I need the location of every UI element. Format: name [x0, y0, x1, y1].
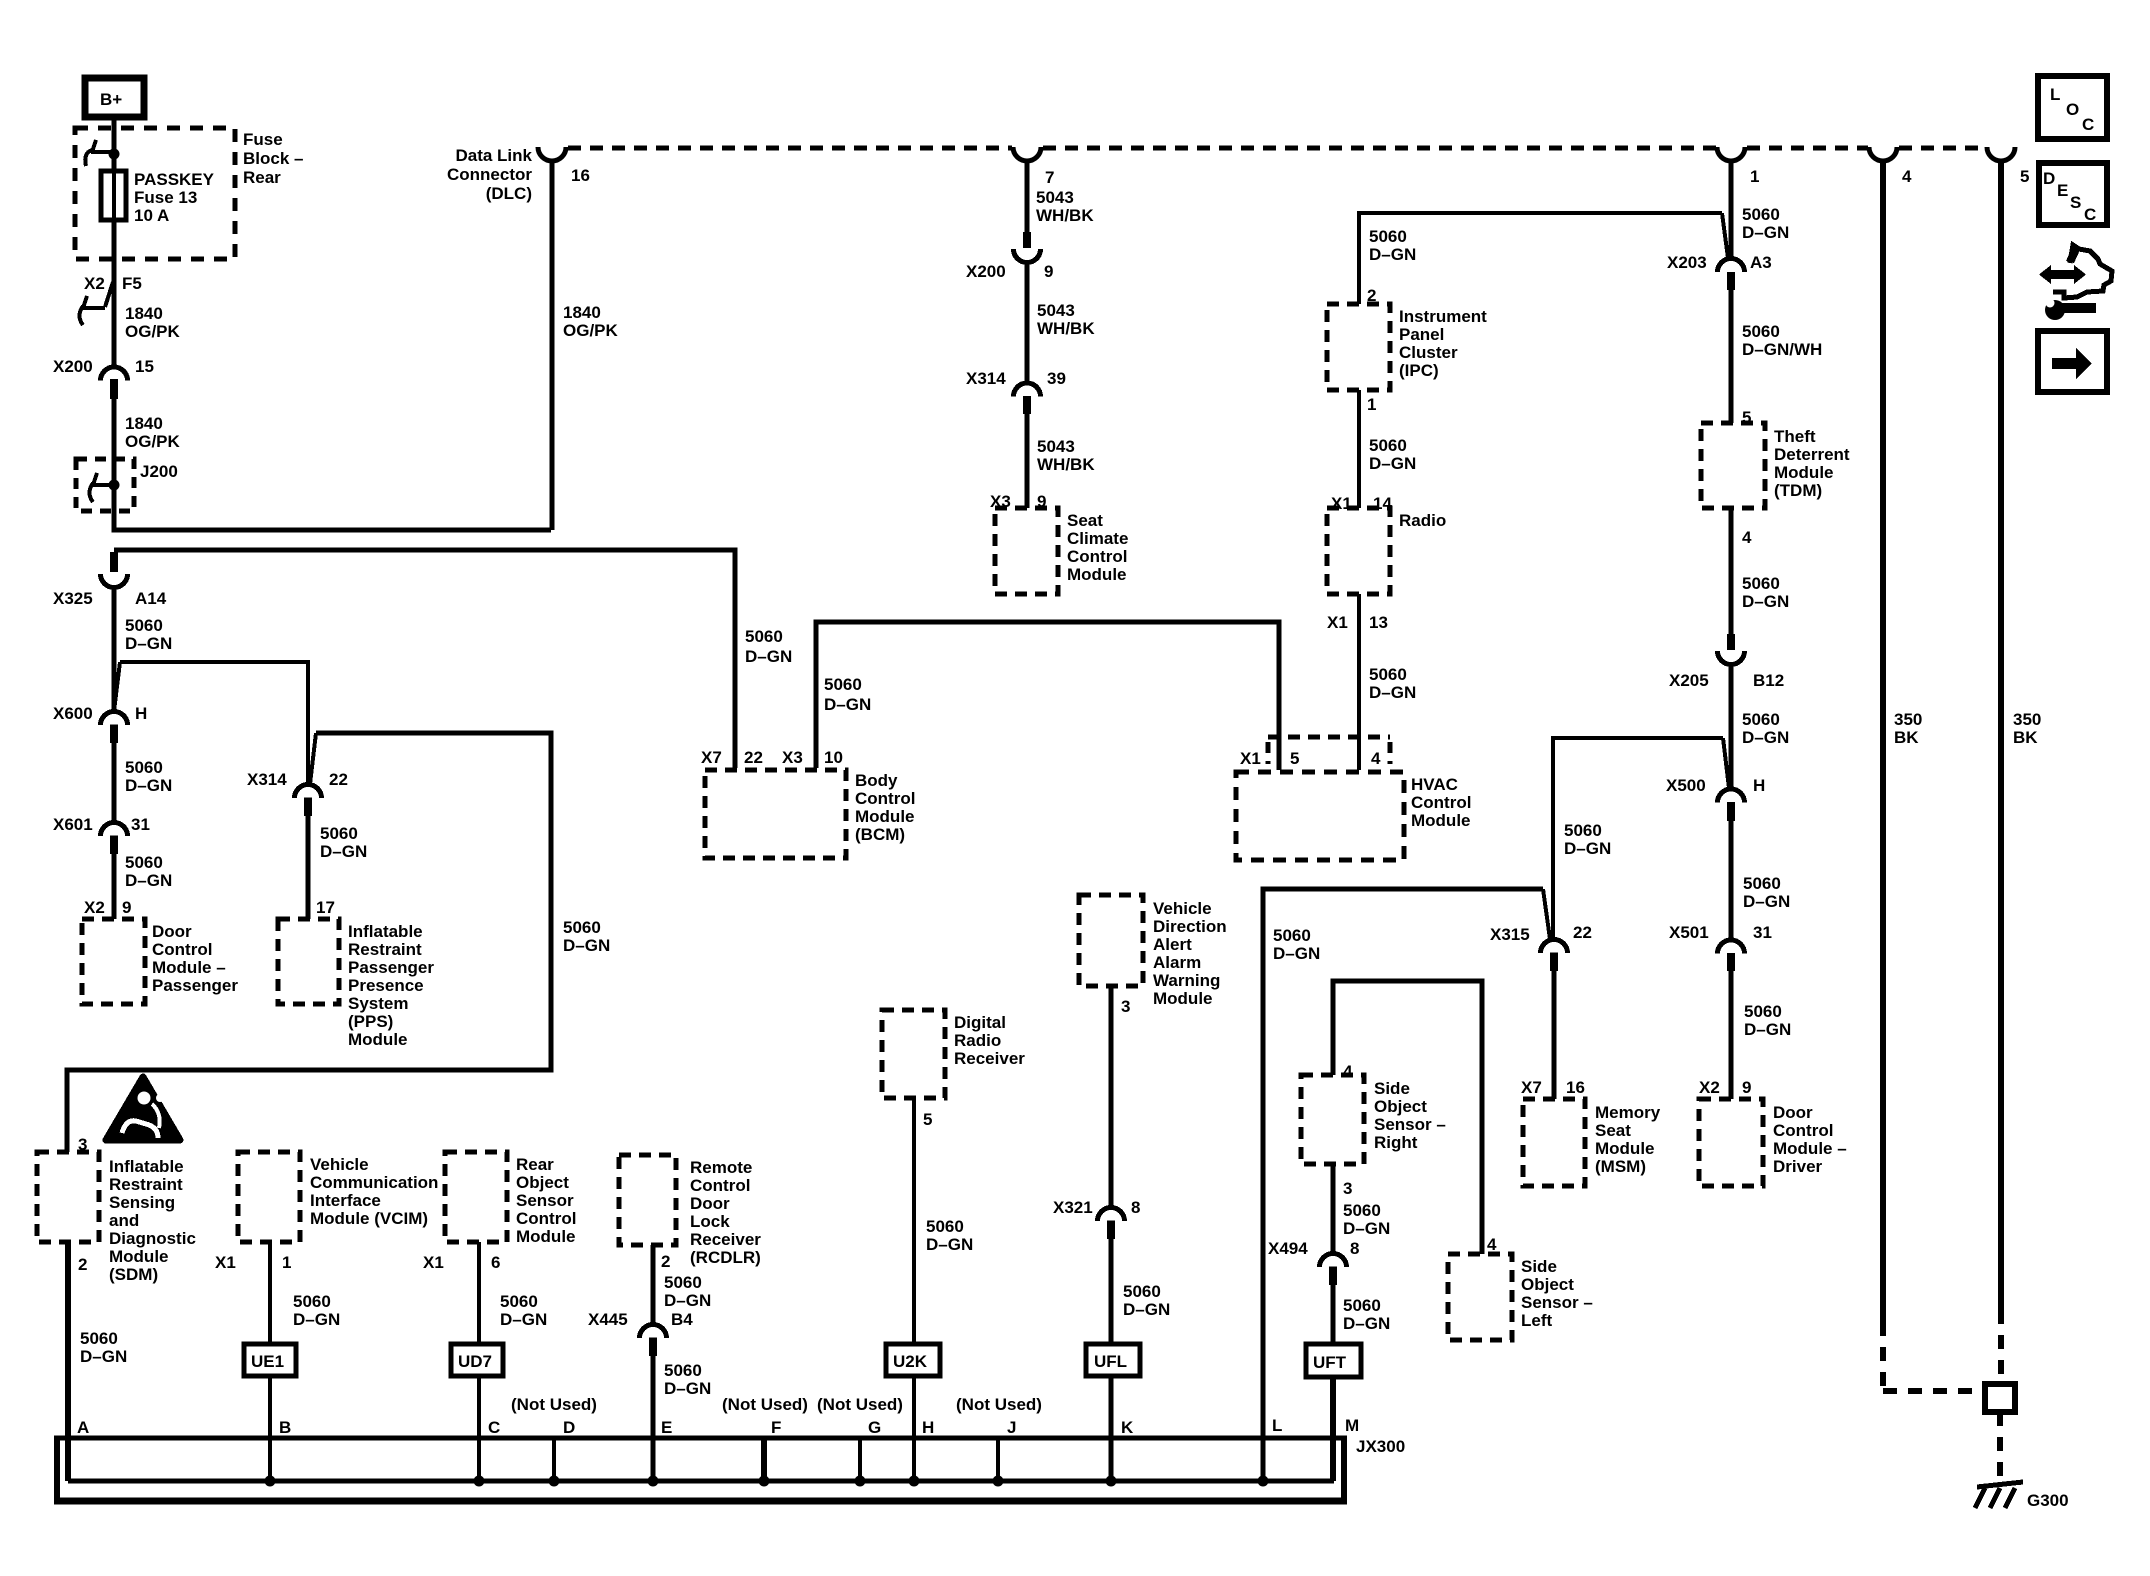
wire UE1 to splice pack B: [268, 1376, 272, 1481]
connector X314 pin 39: [966, 369, 1066, 414]
svg-text:22: 22: [744, 748, 763, 767]
svg-text:3: 3: [1343, 1179, 1352, 1198]
svg-text:5060: 5060: [1743, 874, 1781, 893]
connector X445 pin B4: [588, 1310, 693, 1356]
svg-text:Warning: Warning: [1153, 971, 1220, 990]
svg-text:D–GN: D–GN: [1369, 245, 1416, 264]
svg-text:D–GN: D–GN: [926, 1235, 973, 1254]
wire 5060 D-GN to UD7: [477, 1242, 481, 1344]
svg-text:E: E: [661, 1418, 672, 1437]
svg-text:5060: 5060: [320, 824, 358, 843]
svg-text:Module –: Module –: [1773, 1139, 1847, 1158]
wire 5060 D-GN X321 to UFL: [1109, 1239, 1114, 1344]
svg-text:16: 16: [1566, 1078, 1585, 1097]
stub D: [552, 1438, 556, 1481]
wire dashed to G300: [1997, 1412, 2003, 1482]
wire 1840 OG/PK to X200: [112, 268, 117, 368]
wire U2K to splice pack H: [912, 1376, 916, 1481]
svg-text:1: 1: [1367, 395, 1376, 414]
svg-text:D–GN: D–GN: [563, 936, 610, 955]
icon DESC box: [2039, 163, 2107, 225]
svg-text:D–GN: D–GN: [1343, 1219, 1390, 1238]
connector X601 pin 31: [53, 815, 150, 854]
wire 5060 D-GN X494 to UFT: [1331, 1285, 1336, 1344]
svg-text:Interface: Interface: [310, 1191, 381, 1210]
svg-text:Panel: Panel: [1399, 325, 1444, 344]
svg-text:X2: X2: [84, 898, 105, 917]
svg-text:5: 5: [1290, 749, 1299, 768]
connector UFT: [1306, 1344, 1361, 1377]
wire branch X500 to X315: [1553, 738, 1729, 940]
icon wrench: [2043, 298, 2096, 320]
stub J: [996, 1438, 1000, 1481]
svg-text:D–GN: D–GN: [1369, 454, 1416, 473]
svg-text:C: C: [488, 1418, 500, 1437]
wire UFT to splice pack M: [1330, 1377, 1336, 1481]
svg-text:Fuse: Fuse: [243, 130, 283, 149]
svg-text:X7: X7: [701, 748, 722, 767]
svg-text:X600: X600: [53, 704, 93, 723]
svg-text:D–GN: D–GN: [745, 647, 792, 666]
svg-text:X314: X314: [247, 770, 287, 789]
connector U2K: [886, 1344, 940, 1376]
svg-text:10: 10: [824, 748, 843, 767]
svg-text:Rear: Rear: [516, 1155, 554, 1174]
svg-text:D–GN: D–GN: [1742, 223, 1789, 242]
svg-text:F5: F5: [122, 274, 142, 293]
stub F: [761, 1438, 767, 1481]
splice pack JX300 bus: [54, 1436, 1347, 1503]
icon forward arrow box: [2038, 331, 2107, 392]
svg-text:H: H: [1753, 776, 1765, 795]
svg-text:5060: 5060: [1369, 436, 1407, 455]
svg-text:2: 2: [78, 1255, 87, 1274]
svg-text:Alarm: Alarm: [1153, 953, 1201, 972]
svg-text:Control: Control: [1067, 547, 1127, 566]
fuse PASSKEY Fuse 13 10A: [101, 171, 126, 220]
connector X200 pin 15: [53, 357, 154, 399]
svg-text:31: 31: [1753, 923, 1772, 942]
svg-text:2: 2: [661, 1252, 670, 1271]
svg-text:Module: Module: [516, 1227, 576, 1246]
svg-text:(RCDLR): (RCDLR): [690, 1248, 761, 1267]
labels (Not Used): [511, 1395, 1042, 1414]
serial data bus dashed line: [568, 146, 1987, 151]
svg-text:5043: 5043: [1037, 437, 1075, 456]
svg-text:Module –: Module –: [152, 958, 226, 977]
svg-text:Theft: Theft: [1774, 427, 1816, 446]
svg-text:Module: Module: [348, 1030, 408, 1049]
wire 5060 D-GN to BCM X7: [114, 550, 735, 768]
svg-text:Diagnostic: Diagnostic: [109, 1229, 196, 1248]
svg-text:8: 8: [1131, 1198, 1140, 1217]
svg-text:BK: BK: [1894, 728, 1919, 747]
svg-text:Side: Side: [1521, 1257, 1557, 1276]
wire 5060 D-GN sensor right to X494: [1331, 1164, 1336, 1254]
wire 5060 D-GN X315 branch to splice pack L: [1263, 889, 1543, 1481]
svg-text:D–GN: D–GN: [1123, 1300, 1170, 1319]
connector X600 pin H: [53, 704, 147, 743]
svg-text:X445: X445: [588, 1310, 628, 1329]
svg-text:D–GN: D–GN: [1564, 839, 1611, 858]
svg-text:D–GN: D–GN: [320, 842, 367, 861]
svg-text:5060: 5060: [1742, 574, 1780, 593]
svg-text:U2K: U2K: [893, 1352, 928, 1371]
svg-text:5060: 5060: [1744, 1002, 1782, 1021]
svg-text:5060: 5060: [1273, 926, 1311, 945]
ground G300: [1975, 1482, 2069, 1510]
svg-text:9: 9: [122, 898, 131, 917]
svg-text:and: and: [109, 1211, 139, 1230]
connector X200 pin 9: [966, 232, 1053, 281]
svg-text:L: L: [2050, 85, 2060, 104]
svg-text:D–GN: D–GN: [500, 1310, 547, 1329]
svg-text:D–GN: D–GN: [80, 1347, 127, 1366]
module Side Object Sensor - Left: [1448, 1254, 1512, 1340]
svg-text:B: B: [279, 1418, 291, 1437]
svg-text:(Not Used): (Not Used): [722, 1395, 808, 1414]
svg-text:5043: 5043: [1037, 301, 1075, 320]
wire UD7 to splice pack C: [477, 1376, 481, 1481]
wire 5060 D-GN side object sensors branch: [1333, 981, 1482, 1254]
wire 5060 D-GN X205 to X500: [1729, 664, 1734, 789]
connector X2 pin F5: [80, 274, 142, 325]
svg-text:Sensor –: Sensor –: [1521, 1293, 1593, 1312]
svg-text:UFL: UFL: [1094, 1352, 1127, 1371]
svg-text:Sensor –: Sensor –: [1374, 1115, 1446, 1134]
wire 5060 D-GN DRR to U2K: [912, 1098, 916, 1344]
wire 5060 D-GN pin1 to X203: [1729, 160, 1734, 259]
svg-text:4: 4: [1343, 1062, 1353, 1081]
svg-text:J200: J200: [140, 462, 178, 481]
svg-text:Vehicle: Vehicle: [1153, 899, 1212, 918]
svg-text:M: M: [1345, 1416, 1359, 1435]
svg-text:PASSKEY: PASSKEY: [134, 170, 215, 189]
svg-text:WH/BK: WH/BK: [1036, 206, 1094, 225]
svg-text:X200: X200: [53, 357, 93, 376]
wire 5060 D-GN X314 branch to SDM: [67, 733, 551, 1152]
svg-text:31: 31: [131, 815, 150, 834]
module Rear Object Sensor Control Module: [445, 1152, 507, 1242]
svg-text:X500: X500: [1666, 776, 1706, 795]
svg-text:D–GN: D–GN: [293, 1310, 340, 1329]
wire 5060 D-GN SDM to splice pack A: [65, 1242, 71, 1481]
module Inflatable Restraint Sensing and Diagnostic Module (SDM): [37, 1152, 99, 1242]
svg-text:5060: 5060: [1343, 1201, 1381, 1220]
wire 5060 D-GN VCIM to UE1: [268, 1242, 272, 1344]
svg-text:Block –: Block –: [243, 149, 303, 168]
module Door Control Module - Driver: [1699, 1099, 1763, 1186]
svg-text:5060: 5060: [1369, 665, 1407, 684]
svg-text:5060: 5060: [926, 1217, 964, 1236]
svg-text:5060: 5060: [125, 758, 163, 777]
connector UFL: [1086, 1344, 1140, 1376]
svg-text:H: H: [135, 704, 147, 723]
svg-text:5060: 5060: [745, 627, 783, 646]
svg-text:X3: X3: [782, 748, 803, 767]
wire 5060 D-GN IPC to radio: [1357, 390, 1361, 508]
svg-text:UE1: UE1: [251, 1352, 284, 1371]
svg-text:Data Link: Data Link: [455, 146, 532, 165]
module Inflatable Restraint Passenger Presence System (PPS) Module: [278, 919, 339, 1004]
svg-text:D–GN: D–GN: [1343, 1314, 1390, 1333]
svg-text:D: D: [2043, 169, 2055, 188]
svg-text:5060: 5060: [824, 675, 862, 694]
svg-text:Module: Module: [109, 1247, 169, 1266]
svg-text:E: E: [2057, 181, 2068, 200]
svg-text:Instrument: Instrument: [1399, 307, 1487, 326]
module Vehicle Communication Interface Module (VCIM): [238, 1152, 300, 1242]
svg-text:X325: X325: [53, 589, 93, 608]
svg-text:BK: BK: [2013, 728, 2038, 747]
module Body Control Module (BCM): [705, 770, 846, 858]
connector X314 pin 22: [247, 770, 348, 816]
svg-text:D–GN: D–GN: [664, 1291, 711, 1310]
svg-text:D–GN: D–GN: [1369, 683, 1416, 702]
svg-text:A: A: [77, 1418, 89, 1437]
svg-text:1840: 1840: [125, 304, 163, 323]
svg-text:Control: Control: [516, 1209, 576, 1228]
svg-text:(BCM): (BCM): [855, 825, 905, 844]
svg-text:Sensor: Sensor: [516, 1191, 574, 1210]
svg-text:(TDM): (TDM): [1774, 481, 1822, 500]
wire 5060 D-GN X601 to door module passenger: [112, 854, 117, 919]
svg-text:Connector: Connector: [447, 165, 532, 184]
svg-text:Module: Module: [855, 807, 915, 826]
svg-text:10 A: 10 A: [134, 206, 169, 225]
svg-text:Module: Module: [1774, 463, 1834, 482]
svg-text:X203: X203: [1667, 253, 1707, 272]
svg-text:Receiver: Receiver: [954, 1049, 1025, 1068]
svg-text:JX300: JX300: [1356, 1437, 1405, 1456]
svg-text:5060: 5060: [664, 1361, 702, 1380]
connector X321 pin 8: [1053, 1198, 1140, 1239]
svg-text:X1: X1: [1327, 613, 1348, 632]
module Memory Seat Module (MSM): [1523, 1099, 1585, 1186]
svg-text:9: 9: [1044, 262, 1053, 281]
svg-text:5060: 5060: [1742, 710, 1780, 729]
svg-text:1: 1: [282, 1253, 291, 1272]
svg-text:D–GN: D–GN: [125, 776, 172, 795]
svg-text:OG/PK: OG/PK: [125, 432, 181, 451]
svg-text:(PPS): (PPS): [348, 1012, 393, 1031]
connector cup pin 4 on bus: [1869, 147, 1897, 161]
svg-text:Control: Control: [855, 789, 915, 808]
wire 350 BK dashed to ground splice: [1998, 1310, 2004, 1384]
svg-text:(Not Used): (Not Used): [511, 1395, 597, 1414]
module Seat Climate Control Module: [995, 508, 1058, 594]
connector cup pin 1 on bus: [1717, 147, 1745, 161]
fuse block - rear dashed box: [75, 128, 235, 259]
svg-text:X314: X314: [966, 369, 1006, 388]
svg-text:S: S: [2070, 193, 2081, 212]
wire 5060 D-GN X600 to X601: [112, 743, 117, 823]
splice pack letters A-M: [77, 1416, 1359, 1437]
wire 350 BK pin 4 drop: [1880, 160, 1886, 1322]
svg-text:Rear: Rear: [243, 168, 281, 187]
svg-text:HVAC: HVAC: [1411, 775, 1458, 794]
wire 5060 D-GN X314 to PPS: [306, 816, 311, 919]
svg-text:OG/PK: OG/PK: [125, 322, 181, 341]
svg-text:Side: Side: [1374, 1079, 1410, 1098]
module Instrument Panel Cluster (IPC): [1327, 304, 1390, 390]
battery feed B+: [85, 78, 144, 117]
wire 5060 D-GN X501 to door module driver: [1729, 971, 1734, 1099]
splice J200 dashed box: [76, 459, 134, 511]
svg-text:X1: X1: [215, 1253, 236, 1272]
svg-text:K: K: [1121, 1418, 1134, 1437]
svg-text:Control: Control: [690, 1176, 750, 1195]
svg-text:16: 16: [571, 166, 590, 185]
svg-text:5060: 5060: [1343, 1296, 1381, 1315]
connector X325 pin A14: [53, 552, 167, 608]
wire 5060 D-GN BCM X3 to HVAC pin5: [816, 622, 1279, 770]
wire 5060 D-GN RCDLR to X445: [651, 1245, 656, 1325]
connector X205 pin B12: [1669, 634, 1784, 690]
stub G: [858, 1438, 862, 1481]
svg-text:WH/BK: WH/BK: [1037, 455, 1095, 474]
svg-text:Fuse 13: Fuse 13: [134, 188, 197, 207]
svg-text:(MSM): (MSM): [1595, 1157, 1646, 1176]
wire branch to X314 pin 22: [114, 662, 308, 785]
svg-text:UD7: UD7: [458, 1352, 492, 1371]
wire branch to IPC: [1359, 213, 1728, 304]
svg-text:Radio: Radio: [1399, 511, 1446, 530]
svg-text:X205: X205: [1669, 671, 1709, 690]
svg-text:D–GN: D–GN: [1742, 592, 1789, 611]
svg-text:Control: Control: [1773, 1121, 1833, 1140]
svg-text:Vehicle: Vehicle: [310, 1155, 369, 1174]
svg-text:D: D: [563, 1418, 575, 1437]
svg-text:X200: X200: [966, 262, 1006, 281]
svg-text:5: 5: [923, 1110, 932, 1129]
svg-text:Driver: Driver: [1773, 1157, 1823, 1176]
HVAC X1 connector notch: [1268, 737, 1390, 764]
svg-text:5060: 5060: [563, 918, 601, 937]
svg-text:17: 17: [316, 898, 335, 917]
airbag warning icon: [106, 1077, 180, 1140]
svg-text:Climate: Climate: [1067, 529, 1128, 548]
wire 5043 WH/BK pin7 to X200: [1025, 160, 1030, 232]
svg-text:(DLC): (DLC): [486, 184, 532, 203]
svg-text:Module: Module: [1153, 989, 1213, 1008]
svg-text:5060: 5060: [1742, 205, 1780, 224]
svg-text:5: 5: [2020, 167, 2029, 186]
svg-text:4: 4: [1487, 1235, 1497, 1254]
svg-text:X1: X1: [1240, 749, 1261, 768]
svg-text:D–GN: D–GN: [1744, 1020, 1791, 1039]
svg-text:Direction: Direction: [1153, 917, 1227, 936]
svg-text:UFT: UFT: [1313, 1353, 1347, 1372]
junction and clip in J200: [90, 473, 120, 502]
connector X203 pin A3: [1667, 253, 1772, 290]
svg-text:D–GN: D–GN: [824, 695, 871, 714]
svg-text:O: O: [2066, 100, 2079, 119]
svg-text:Restraint: Restraint: [348, 940, 422, 959]
svg-text:5060: 5060: [1564, 821, 1602, 840]
svg-text:D–GN: D–GN: [1743, 892, 1790, 911]
svg-text:5060: 5060: [125, 853, 163, 872]
connector cup DLC on bus: [538, 147, 566, 161]
svg-text:G300: G300: [2027, 1491, 2069, 1510]
svg-text:X321: X321: [1053, 1198, 1093, 1217]
module Vehicle Direction Alert Alarm Warning Module: [1079, 895, 1143, 986]
svg-text:Object: Object: [1521, 1275, 1574, 1294]
svg-text:X601: X601: [53, 815, 93, 834]
svg-text:15: 15: [135, 357, 154, 376]
svg-text:Inflatable: Inflatable: [109, 1157, 184, 1176]
svg-text:A3: A3: [1750, 253, 1772, 272]
svg-text:J: J: [1007, 1418, 1016, 1437]
svg-text:Digital: Digital: [954, 1013, 1006, 1032]
svg-text:1840: 1840: [563, 303, 601, 322]
svg-text:Memory: Memory: [1595, 1103, 1661, 1122]
svg-text:5043: 5043: [1036, 188, 1074, 207]
svg-text:D–GN: D–GN: [1742, 728, 1789, 747]
svg-text:9: 9: [1742, 1078, 1751, 1097]
svg-text:5060: 5060: [1742, 322, 1780, 341]
svg-text:Alert: Alert: [1153, 935, 1192, 954]
svg-text:Receiver: Receiver: [690, 1230, 761, 1249]
module Side Object Sensor - Right: [1301, 1075, 1364, 1164]
svg-text:B+: B+: [100, 90, 122, 109]
svg-text:5060: 5060: [664, 1273, 702, 1292]
svg-text:5060: 5060: [125, 616, 163, 635]
svg-text:Remote: Remote: [690, 1158, 752, 1177]
connector X500 pin H: [1666, 776, 1765, 821]
svg-text:System: System: [348, 994, 408, 1013]
svg-text:Communication: Communication: [310, 1173, 438, 1192]
connector UD7: [451, 1344, 503, 1376]
ground splice box: [1985, 1384, 2015, 1412]
connector X494 pin 8: [1268, 1239, 1359, 1285]
svg-text:D–GN/WH: D–GN/WH: [1742, 340, 1822, 359]
icon LOC box: [2038, 76, 2107, 139]
wire 350 BK dashed to ground splice: [1883, 1322, 1982, 1391]
svg-text:C: C: [2082, 115, 2094, 134]
svg-text:D–GN: D–GN: [1273, 944, 1320, 963]
svg-text:(SDM): (SDM): [109, 1265, 158, 1284]
svg-text:D–GN: D–GN: [125, 871, 172, 890]
svg-text:OG/PK: OG/PK: [563, 321, 619, 340]
connector UE1: [244, 1344, 296, 1376]
svg-text:4: 4: [1742, 528, 1752, 547]
svg-text:Door: Door: [690, 1194, 730, 1213]
svg-text:X1: X1: [423, 1253, 444, 1272]
svg-text:G: G: [868, 1418, 881, 1437]
wire 5043 WH/BK X200 to X314: [1025, 262, 1030, 384]
svg-text:Module: Module: [1067, 565, 1127, 584]
module Theft Deterrent Module (TDM): [1701, 423, 1765, 508]
wire UFL to splice pack K: [1109, 1376, 1114, 1481]
svg-text:39: 39: [1047, 369, 1066, 388]
svg-text:22: 22: [1573, 923, 1592, 942]
wire fuse to X2 F5: [112, 220, 117, 268]
svg-text:Lock: Lock: [690, 1212, 730, 1231]
svg-text:Control: Control: [152, 940, 212, 959]
svg-text:350: 350: [2013, 710, 2041, 729]
svg-text:D–GN: D–GN: [664, 1379, 711, 1398]
svg-text:Module: Module: [1411, 811, 1471, 830]
svg-text:6: 6: [491, 1253, 500, 1272]
svg-text:H: H: [922, 1418, 934, 1437]
svg-text:Seat: Seat: [1067, 511, 1103, 530]
svg-text:A14: A14: [135, 589, 167, 608]
svg-text:22: 22: [329, 770, 348, 789]
svg-text:X2: X2: [1699, 1078, 1720, 1097]
svg-text:5060: 5060: [1369, 227, 1407, 246]
svg-text:Passenger: Passenger: [152, 976, 238, 995]
